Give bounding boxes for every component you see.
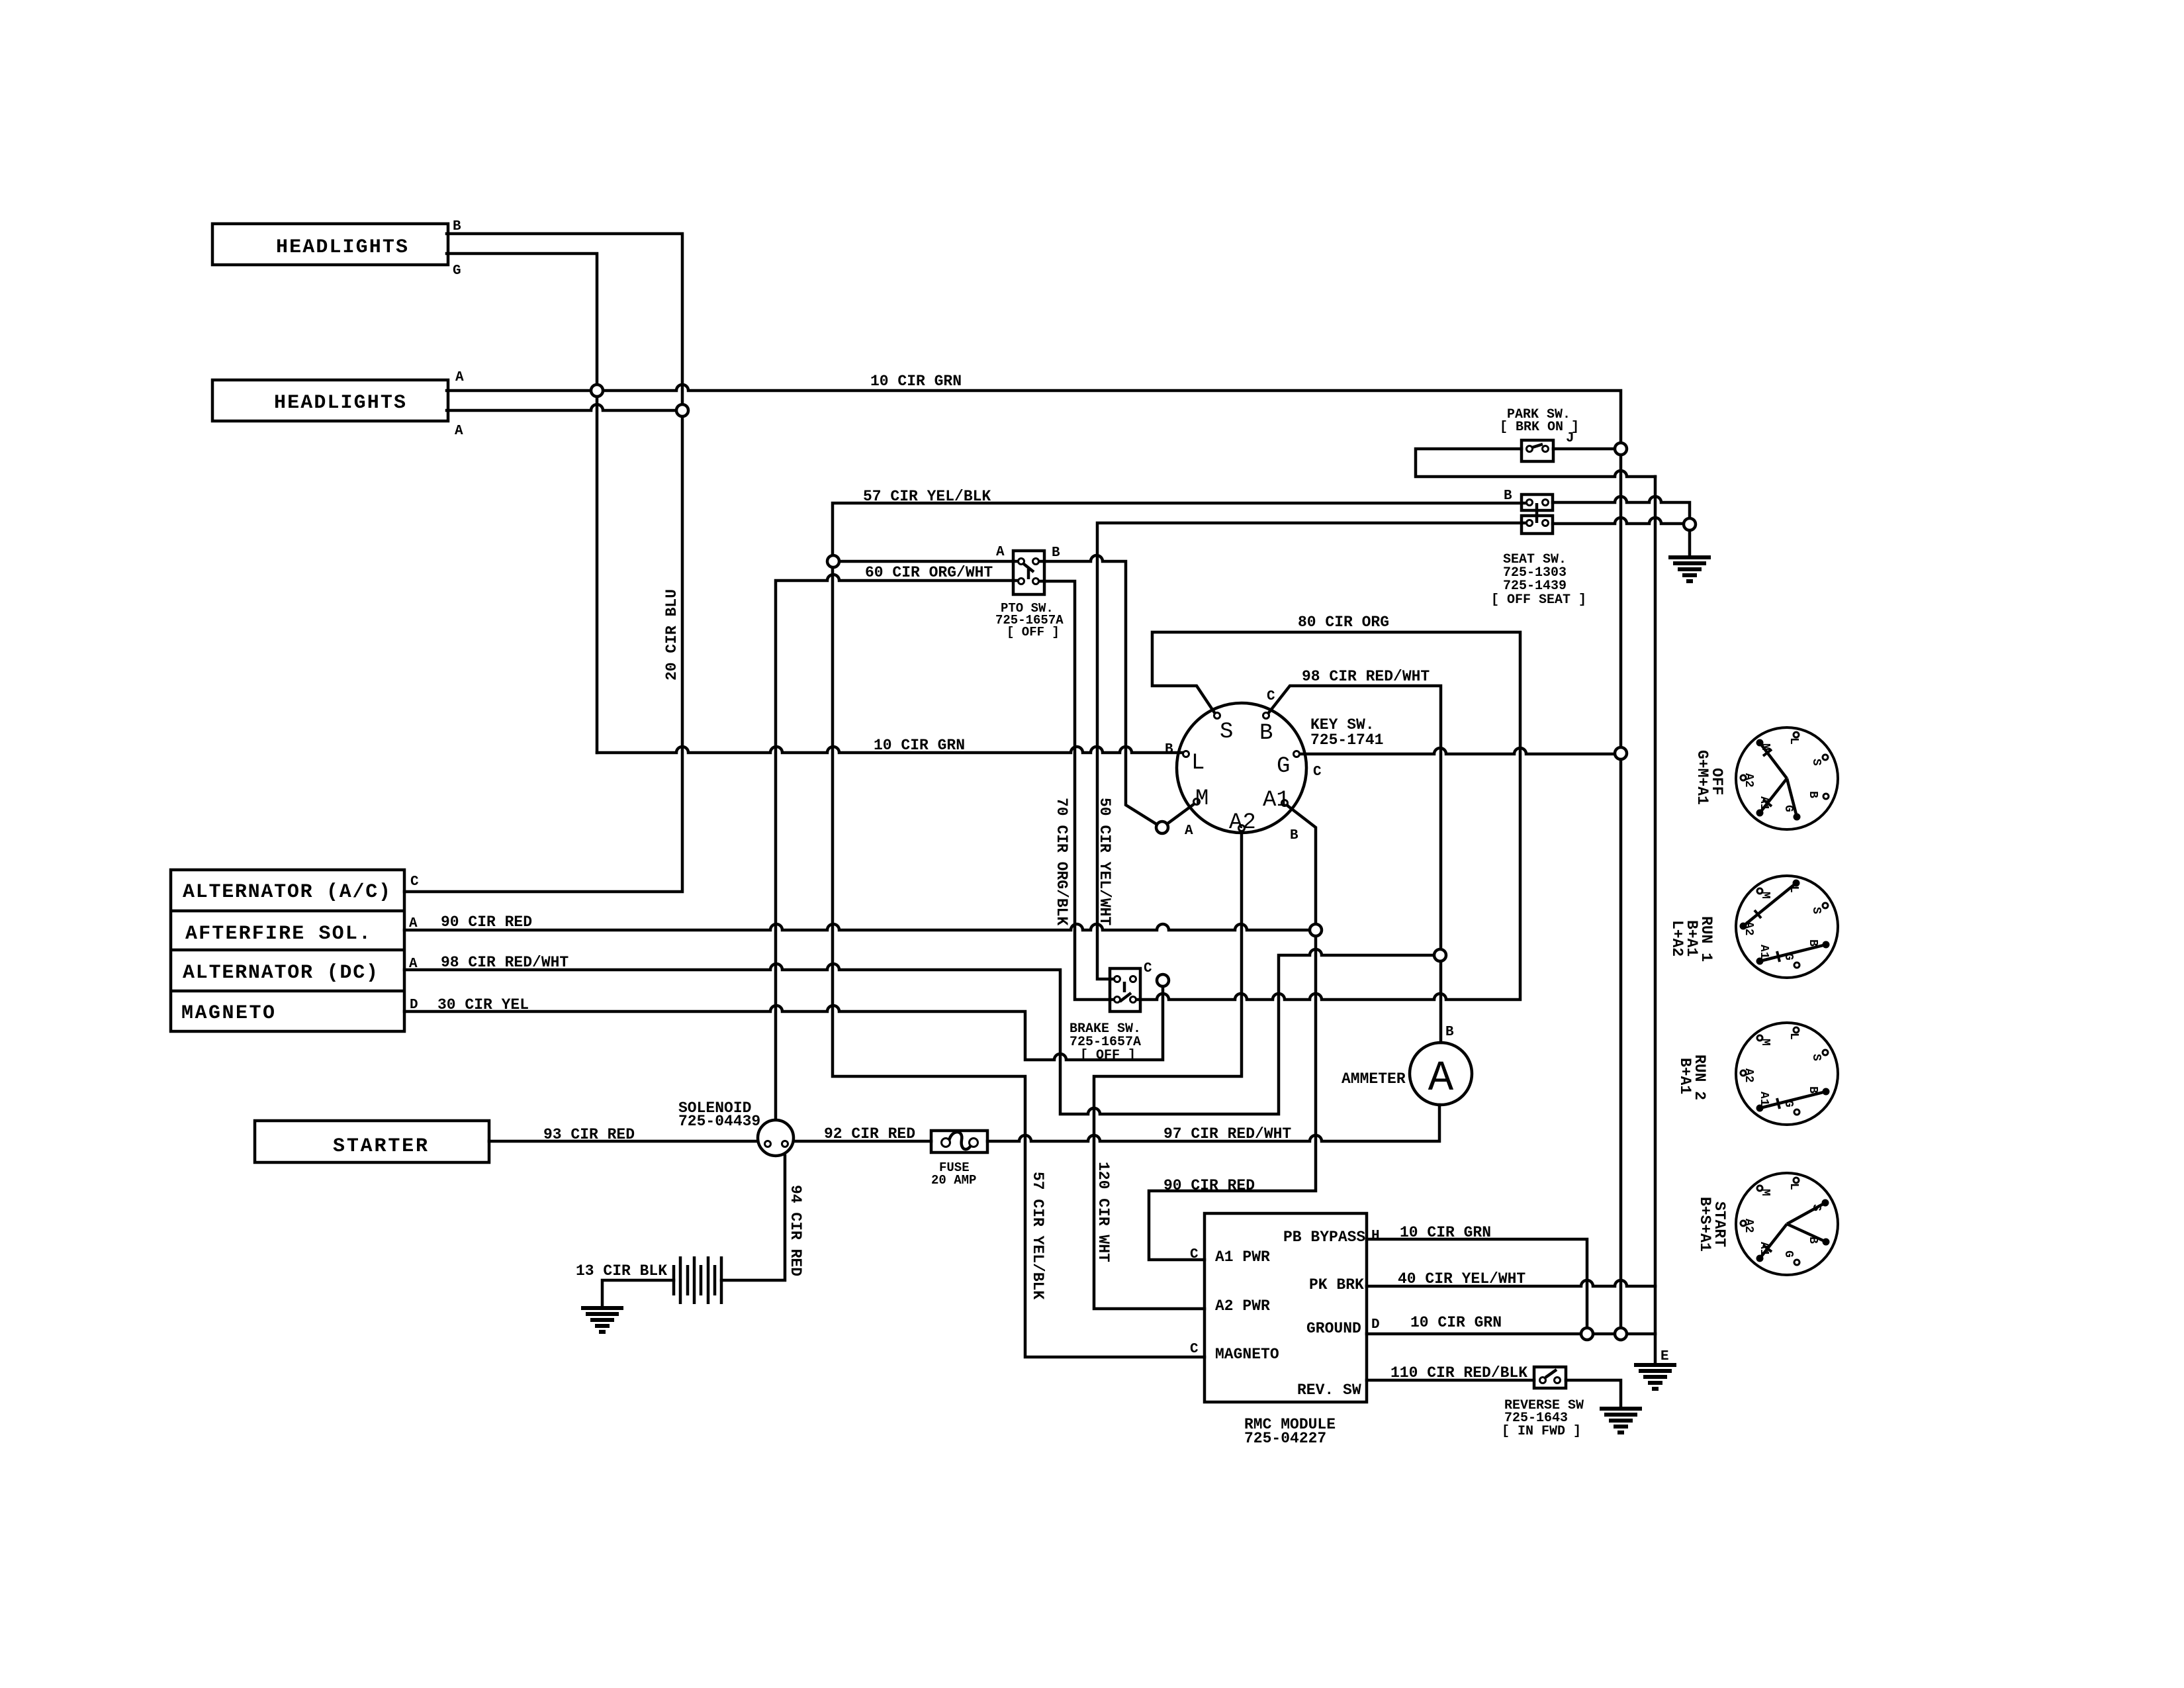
svg-text:A1 PWR: A1 PWR — [1215, 1248, 1270, 1266]
wire 90 CIR RED: afterfire solenoid to key switch A1 junction — [404, 924, 1310, 930]
svg-text:60 CIR ORG/WHT: 60 CIR ORG/WHT — [865, 564, 993, 581]
node: key switch M junction — [1156, 821, 1168, 833]
svg-text:A1: A1 — [1757, 1242, 1770, 1256]
svg-text:MAGNETO: MAGNETO — [1215, 1346, 1279, 1363]
solenoid 725-04439 (circle with two pins) — [758, 1120, 794, 1156]
svg-text:40 CIR YEL/WHT: 40 CIR YEL/WHT — [1398, 1270, 1525, 1288]
wire PTO switch B output down to key switch M junction — [1036, 555, 1158, 825]
svg-text:S: S — [1809, 1054, 1823, 1061]
svg-text:B: B — [1806, 791, 1819, 798]
svg-text:B: B — [1806, 1237, 1819, 1244]
wire park switch return: left pin down and right to PK BRK column — [1416, 449, 1655, 477]
svg-text:E: E — [1661, 1349, 1669, 1364]
svg-text:70 CIR ORG/BLK: 70 CIR ORG/BLK — [1053, 798, 1070, 925]
svg-text:B: B — [1806, 1086, 1819, 1094]
svg-text:L: L — [1787, 1033, 1800, 1040]
svg-text:110 CIR RED/BLK: 110 CIR RED/BLK — [1390, 1364, 1527, 1382]
svg-text:57 CIR YEL/BLK: 57 CIR YEL/BLK — [1029, 1172, 1046, 1299]
svg-text:B: B — [1445, 1025, 1454, 1040]
brake switch 725-1657A — [1110, 968, 1140, 1011]
key position diagram: RUN 2 B+A1 — [1736, 1023, 1838, 1125]
svg-text:C: C — [410, 874, 419, 890]
svg-text:ALTERNATOR (A/C): ALTERNATOR (A/C) — [183, 881, 390, 904]
ground (E) — [1634, 1365, 1676, 1389]
svg-text:725-1741: 725-1741 — [1310, 731, 1383, 749]
node: 10 CIR GRN / ground bus junction — [1615, 1328, 1627, 1340]
svg-text:725-04227: 725-04227 — [1244, 1430, 1326, 1447]
svg-text:L: L — [1787, 886, 1800, 893]
wire 30 CIR YEL: magneto pin D to key switch M junction via brake switch C — [404, 980, 1163, 1060]
svg-text:B: B — [1504, 489, 1512, 504]
svg-text:[ OFF ]: [ OFF ] — [1007, 625, 1060, 639]
key position diagram: RUN 1 B+A1 L+A2 — [1736, 876, 1838, 978]
svg-text:B+S+A1: B+S+A1 — [1696, 1197, 1713, 1252]
svg-text:B: B — [1259, 721, 1273, 746]
svg-text:ALTERNATOR (DC): ALTERNATOR (DC) — [183, 962, 378, 984]
PTO switch 725-1657A — [1013, 551, 1044, 594]
svg-text:98 CIR RED/WHT: 98 CIR RED/WHT — [441, 954, 569, 971]
svg-text:L: L — [1191, 751, 1205, 776]
svg-text:C: C — [1190, 1342, 1199, 1357]
svg-text:93 CIR RED: 93 CIR RED — [543, 1126, 635, 1143]
wire seat switch top pin feed right to ground junction — [1553, 496, 1690, 518]
ground (seat switch) — [1668, 557, 1711, 581]
fuse 20 AMP — [931, 1131, 987, 1152]
svg-text:A1: A1 — [1757, 796, 1770, 811]
svg-text:20 AMP: 20 AMP — [931, 1173, 976, 1188]
svg-text:A: A — [996, 545, 1005, 560]
svg-text:H: H — [1371, 1229, 1380, 1244]
svg-text:10 CIR GRN: 10 CIR GRN — [874, 737, 965, 754]
wire 10 CIR GRN top: headlights A across to right column and down — [447, 385, 1621, 1340]
svg-text:C: C — [1144, 961, 1152, 976]
svg-text:A2: A2 — [1742, 773, 1755, 788]
svg-text:A: A — [455, 370, 464, 385]
component STARTER box — [255, 1121, 489, 1162]
node: PB bypass / ground bus junction — [1581, 1328, 1593, 1340]
svg-text:L+A2: L+A2 — [1668, 920, 1686, 957]
svg-text:A: A — [455, 424, 463, 439]
wire headlights G to 10 CIR GRN junction, down to 10 CIR GRN bus — [447, 254, 597, 753]
wire key switch pin G to 10 CIR GRN right column — [1300, 748, 1615, 754]
wire D 10 CIR GRN: RMC GROUND right to E ground — [1367, 1334, 1655, 1365]
node: brake switch C junction — [1157, 974, 1169, 986]
label OFF G+M+A1 (rotated) — [1694, 750, 1725, 805]
wire 120 CIR WHT: key switch pin A2 down to RMC A2 PWR pin — [1094, 831, 1242, 1309]
svg-text:G+M+A1: G+M+A1 — [1694, 750, 1711, 805]
svg-text:94 CIR RED: 94 CIR RED — [787, 1185, 804, 1276]
svg-text:G: G — [1782, 1250, 1795, 1258]
svg-text:S: S — [1809, 907, 1823, 914]
svg-text:50 CIR YEL/WHT: 50 CIR YEL/WHT — [1096, 798, 1113, 925]
svg-text:C: C — [1190, 1247, 1199, 1262]
node: 90 CIR RED / A1 junction — [1310, 924, 1322, 936]
node: 98 CIR RED/WHT / ammeter junction — [1434, 949, 1446, 961]
svg-text:B+A1: B+A1 — [1676, 1058, 1694, 1094]
wire seat switch bottom pin feed right to ground junction — [1553, 518, 1684, 524]
svg-text:G: G — [1782, 1100, 1795, 1107]
svg-text:A2: A2 — [1742, 1068, 1755, 1083]
svg-text:97 CIR RED/WHT: 97 CIR RED/WHT — [1163, 1125, 1291, 1143]
svg-text:M: M — [1758, 743, 1772, 751]
svg-text:MAGNETO: MAGNETO — [181, 1002, 275, 1025]
component HEADLIGHTS box 1 — [212, 224, 448, 265]
wire 92 CIR RED / 97 CIR RED/WHT: solenoid through fuse to ammeter — [794, 1105, 1439, 1141]
svg-text:D: D — [1371, 1317, 1380, 1333]
wire 98 CIR RED/WHT: key switch pin B up across and down to ammeter junction — [1268, 686, 1441, 1043]
wire 10 CIR GRN lower bus to key switch pin L — [597, 747, 1183, 753]
svg-text:90 CIR RED: 90 CIR RED — [1163, 1177, 1255, 1194]
svg-text:G: G — [1782, 953, 1795, 961]
svg-text:REV. SW: REV. SW — [1297, 1382, 1361, 1399]
svg-text:GROUND: GROUND — [1306, 1320, 1361, 1337]
key position diagram: OFF G+M+A1 — [1736, 727, 1838, 829]
ground (battery) — [581, 1308, 623, 1332]
node: 57 CIR YEL/BLK / 60 CIR ORG/WHT junction — [827, 555, 839, 567]
seat switch 725-1303 / 725-1439 — [1522, 494, 1553, 510]
svg-text:A1: A1 — [1263, 788, 1290, 813]
label START B+S+A1 (rotated) — [1696, 1197, 1728, 1252]
ground (reverse switch) — [1600, 1409, 1642, 1432]
wire 13 CIR BLK: battery negative to ground — [602, 1280, 674, 1308]
wire park switch pin J to 10 CIR GRN column — [1553, 447, 1615, 451]
ammeter (circle with A) — [1410, 1043, 1472, 1105]
svg-text:S: S — [1809, 759, 1823, 766]
svg-text:G: G — [1782, 805, 1795, 812]
park switch (BRK ON) — [1522, 440, 1553, 461]
wire headlights A lower to junction — [447, 404, 682, 410]
svg-text:A1: A1 — [1757, 1092, 1770, 1106]
svg-text:M: M — [1758, 892, 1772, 899]
wire solenoid coil feed up to PTO switch lower pin — [776, 575, 1021, 1119]
wire 60 CIR ORG/WHT: junction to PTO switch pin A — [835, 560, 1021, 563]
wire reverse switch output to ground — [1566, 1380, 1621, 1409]
key switch 725-1741 (main circle) — [1177, 703, 1306, 833]
node: seat switch ground junction — [1684, 518, 1696, 530]
key position diagram: START B+S+A1 — [1736, 1173, 1838, 1275]
wire H 10 CIR GRN: RMC PB BYPASS right and down to ground bus — [1367, 1239, 1587, 1328]
reverse switch 725-1643 (IN FWD) — [1534, 1367, 1566, 1388]
svg-text:A2: A2 — [1742, 921, 1755, 936]
svg-text:A2: A2 — [1742, 1219, 1755, 1233]
svg-text:[ OFF ]: [ OFF ] — [1080, 1048, 1136, 1063]
svg-text:10 CIR GRN: 10 CIR GRN — [1410, 1314, 1502, 1331]
component HEADLIGHTS box 2 — [212, 380, 448, 421]
svg-text:A: A — [1428, 1055, 1454, 1103]
svg-text:B: B — [453, 219, 461, 234]
wire 98 CIR RED/WHT: alternator DC to ammeter junction — [404, 949, 1434, 1114]
RMC module 725-04227 box — [1205, 1213, 1367, 1402]
svg-text:A2: A2 — [1229, 810, 1256, 835]
component box stack ALTERNATOR (A/C) / AFTERFIRE SOL. / ALTERNATOR (DC) / MAGNETO — [171, 870, 404, 1031]
wire 40 CIR YEL/WHT column: park brake feed down to RMC ground row and E ground — [1654, 477, 1657, 1334]
svg-text:L: L — [1787, 737, 1800, 745]
svg-text:725-04439: 725-04439 — [678, 1113, 760, 1130]
wire 20 CIR BLU: headlights B down to alternator (A/C) pin C — [404, 234, 682, 892]
node: 10 CIR GRN / key switch G junction — [1615, 747, 1627, 759]
svg-text:20 CIR BLU: 20 CIR BLU — [663, 589, 680, 680]
svg-text:57 CIR YEL/BLK: 57 CIR YEL/BLK — [863, 488, 991, 505]
node: headlights B / 20 CIR BLU junction — [676, 404, 688, 416]
wire 94 CIR RED: solenoid down to battery positive — [721, 1156, 785, 1280]
svg-text:STARTER: STARTER — [333, 1135, 428, 1158]
svg-text:C: C — [1313, 765, 1322, 780]
svg-text:AMMETER: AMMETER — [1342, 1070, 1406, 1088]
svg-text:A1: A1 — [1757, 945, 1770, 959]
svg-text:S: S — [1220, 720, 1233, 745]
wire seat ground junction down to ground — [1688, 530, 1692, 557]
wire key switch pin M diagonal to junction — [1167, 804, 1195, 824]
svg-text:PK BRK: PK BRK — [1309, 1276, 1364, 1293]
wire 50 CIR YEL/WHT: seat switch lower pin to brake switch upper pin — [1097, 523, 1529, 979]
wire 110 CIR RED/BLK: RMC REV. SW to reverse switch — [1367, 1379, 1534, 1382]
svg-text:80 CIR ORG: 80 CIR ORG — [1298, 614, 1389, 631]
label RUN 2 B+A1 (rotated) — [1676, 1055, 1708, 1100]
svg-text:B: B — [1165, 742, 1173, 757]
svg-text:[ BRK ON ]: [ BRK ON ] — [1500, 420, 1579, 435]
wire key switch pin A1 down to 90 CIR RED junction and RMC A1 PWR pin — [1149, 805, 1316, 1260]
battery (plates) — [674, 1256, 721, 1304]
svg-text:S: S — [1809, 1204, 1823, 1211]
svg-text:M: M — [1195, 786, 1208, 812]
svg-text:13 CIR BLK: 13 CIR BLK — [576, 1262, 667, 1280]
node: park switch J / 10 CIR GRN junction — [1615, 443, 1627, 455]
wire 80 CIR ORG loop: brake switch output right, up and across to key switch pin S — [1133, 632, 1520, 1000]
svg-text:PB BYPASS: PB BYPASS — [1283, 1229, 1365, 1246]
svg-text:G: G — [1277, 754, 1290, 779]
svg-text:10 CIR GRN: 10 CIR GRN — [870, 373, 962, 390]
svg-text:A: A — [1185, 823, 1193, 839]
label RUN 1 B+A1 L+A2 (rotated) — [1668, 916, 1715, 962]
svg-text:[ OFF SEAT ]: [ OFF SEAT ] — [1491, 592, 1586, 608]
svg-text:10 CIR GRN: 10 CIR GRN — [1400, 1224, 1491, 1241]
svg-text:30 CIR YEL: 30 CIR YEL — [437, 996, 529, 1013]
svg-text:G: G — [453, 263, 461, 279]
wire 40 CIR YEL/WHT: RMC PK BRK right to park column — [1367, 1280, 1655, 1286]
svg-text:B: B — [1806, 939, 1819, 947]
svg-text:M: M — [1758, 1039, 1772, 1046]
svg-text:M: M — [1758, 1189, 1772, 1196]
svg-text:90 CIR RED: 90 CIR RED — [441, 914, 532, 931]
svg-text:B: B — [1290, 828, 1298, 843]
wire 93 CIR RED: starter to solenoid — [489, 1140, 758, 1143]
wire 70 CIR ORG/BLK: PTO switch lower output down to brake switch lower pin — [1036, 581, 1117, 1000]
svg-text:A2 PWR: A2 PWR — [1215, 1297, 1270, 1315]
svg-text:B: B — [1052, 545, 1060, 561]
svg-text:120 CIR WHT: 120 CIR WHT — [1095, 1162, 1112, 1262]
node: headlights G / 10 CIR GRN junction — [591, 385, 603, 397]
svg-text:725-1439: 725-1439 — [1503, 579, 1567, 594]
svg-text:92 CIR RED: 92 CIR RED — [824, 1125, 915, 1143]
svg-text:[ IN FWD ]: [ IN FWD ] — [1502, 1424, 1581, 1439]
wire 57 CIR YEL/BLK: seat switch to PTO junction, down to RMC magneto pin — [833, 503, 1529, 1357]
svg-text:C: C — [1267, 689, 1275, 704]
svg-text:L: L — [1787, 1183, 1800, 1190]
svg-text:98 CIR RED/WHT: 98 CIR RED/WHT — [1302, 668, 1430, 685]
